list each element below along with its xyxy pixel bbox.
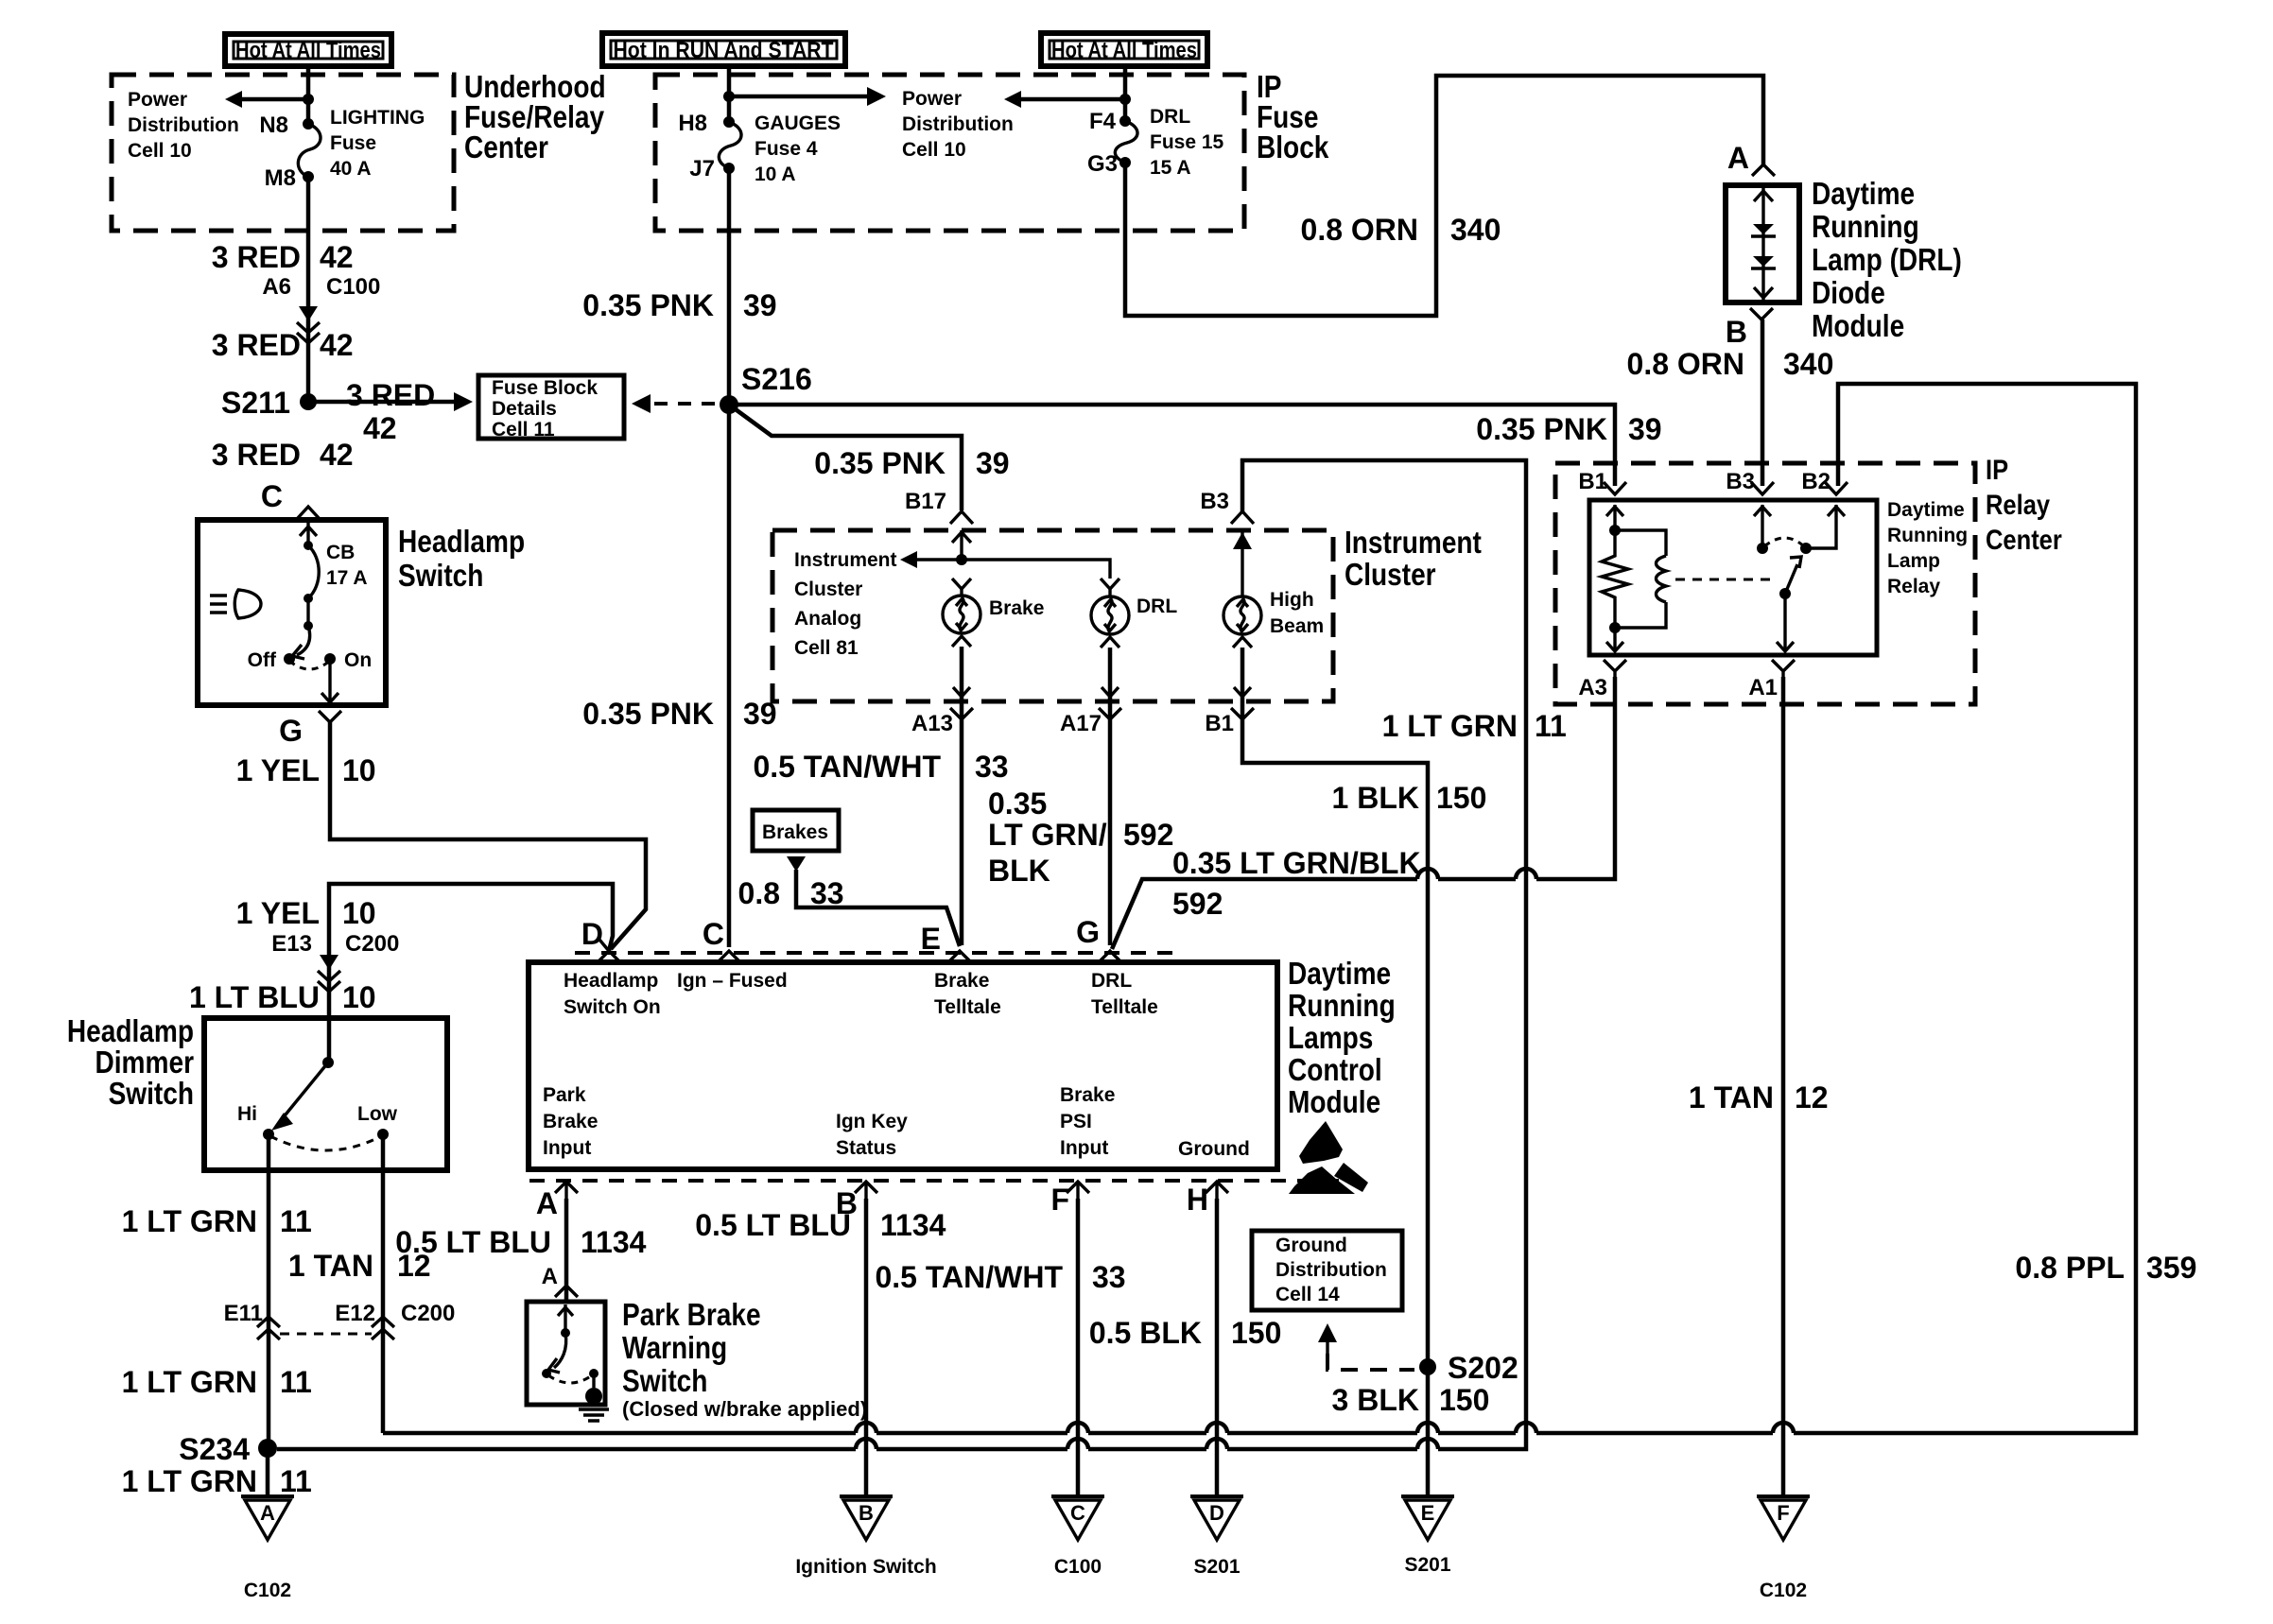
wire label 1 LT GRN 11 (below E11) (122, 1365, 312, 1399)
label Underhood Fuse/Relay Center (464, 69, 606, 164)
svg-text:0.5 LT BLU: 0.5 LT BLU (695, 1208, 851, 1242)
svg-text:Headlamp: Headlamp (67, 1013, 194, 1048)
label Headlamp Switch (398, 524, 525, 593)
fuse LIGHTING Fuse 40 A (N8/M8) (298, 118, 321, 182)
contact Off (248, 649, 295, 671)
relay switch dashed arc (1764, 538, 1804, 546)
svg-text:N8: N8 (259, 112, 288, 138)
svg-text:0.5 BLK: 0.5 BLK (1089, 1316, 1202, 1350)
connector chevron A park brake (555, 1286, 578, 1297)
svg-text:Switch: Switch (109, 1076, 194, 1111)
svg-text:11: 11 (280, 1365, 312, 1399)
svg-text:33: 33 (1092, 1260, 1126, 1294)
label IP Fuse Block (1257, 69, 1329, 164)
svg-text:Brake: Brake (1060, 1084, 1115, 1106)
svg-text:Beam: Beam (1270, 615, 1324, 637)
svg-text:0.8: 0.8 (738, 876, 780, 910)
label IP Relay Center (1986, 455, 2062, 556)
connector chevron G (319, 711, 341, 722)
svg-text:C102: C102 (244, 1580, 291, 1601)
wire label 1 BLK 150 (1332, 781, 1487, 815)
svg-text:150: 150 (1231, 1316, 1281, 1350)
connector triangle B / Ignition Switch (795, 1496, 936, 1578)
label GAUGES Fuse 4 10 A (755, 112, 841, 185)
svg-text:39: 39 (743, 288, 777, 322)
wire S211 to Fuse Block Details (308, 392, 473, 411)
label Daytime Running Lamp Relay (1887, 499, 1968, 597)
relay coil input wire B1 (1606, 505, 1623, 536)
svg-text:Input: Input (543, 1137, 591, 1159)
wire label 0.8 ORN 340 (top) (1301, 213, 1501, 247)
svg-text:GAUGES: GAUGES (755, 112, 841, 134)
svg-text:B17: B17 (905, 489, 946, 514)
connector chevron B1 relay (1604, 482, 1626, 494)
connector chevron F module (1067, 1182, 1089, 1199)
wire label 0.35 PNK 39 (relay B1) (1476, 412, 1661, 446)
svg-text:Brakes: Brakes (762, 821, 828, 843)
svg-text:B: B (859, 1501, 874, 1525)
svg-text:42: 42 (320, 438, 354, 472)
svg-text:Ign Key: Ign Key (836, 1111, 908, 1132)
svg-text:Distribution: Distribution (902, 113, 1014, 135)
pin label A17 (1060, 711, 1102, 736)
svg-text:B1: B1 (1578, 469, 1607, 494)
svg-text:1 YEL: 1 YEL (236, 896, 320, 930)
DRL control module box (529, 962, 1277, 1169)
svg-text:Fuse 4: Fuse 4 (755, 138, 818, 160)
connector chevron B3 relay (1751, 482, 1774, 494)
wire label 1 LT GRN 11 (above E11) (122, 1204, 312, 1238)
svg-text:Brake: Brake (934, 970, 989, 992)
svg-text:H8: H8 (678, 111, 707, 136)
svg-text:340: 340 (1783, 347, 1833, 381)
connector triangle D / S201 (1190, 1496, 1243, 1578)
ground distribution cell 14 box (1252, 1231, 1402, 1310)
relay contact B2 (1800, 505, 1845, 554)
svg-text:10 A: 10 A (755, 164, 796, 185)
module pin name Park Brake Input (543, 1084, 598, 1159)
svg-text:Diode: Diode (1812, 275, 1885, 310)
pin label B1 (relay) (1578, 469, 1607, 494)
wire label 3 RED 42 (above C100) (212, 240, 354, 274)
svg-text:Hot In RUN And START: Hot In RUN And START (614, 38, 834, 63)
connector triangle A / C102 (241, 1496, 294, 1601)
connector E12/C200 labels (335, 1301, 455, 1326)
lamp High Beam telltale (1223, 530, 1324, 697)
wire label 0.5 TAN/WHT 33 (A13) (753, 750, 1008, 784)
svg-text:3 RED: 3 RED (212, 438, 301, 472)
svg-text:J7: J7 (689, 156, 715, 181)
pin label F4 (1089, 109, 1117, 134)
lamp DRL telltale (1091, 579, 1177, 697)
relay switch common B3 (1754, 505, 1771, 554)
connector chevron B17 (950, 511, 973, 524)
pin label G module (1076, 915, 1100, 949)
svg-text:150: 150 (1439, 1383, 1489, 1417)
svg-text:Low: Low (357, 1103, 398, 1125)
svg-text:Hot At All Times: Hot At All Times (235, 38, 381, 63)
connector C200 chevrons at E12 (372, 1317, 394, 1339)
svg-text:Cell 81: Cell 81 (794, 637, 859, 659)
svg-text:D: D (1209, 1501, 1224, 1525)
svg-text:39: 39 (1628, 412, 1662, 446)
headlamp icon (210, 590, 261, 618)
svg-text:C200: C200 (401, 1301, 455, 1326)
svg-text:Running: Running (1288, 988, 1396, 1023)
diode D2 (1751, 256, 1776, 268)
pin label C (703, 917, 724, 951)
svg-text:0.5 TAN/WHT: 0.5 TAN/WHT (753, 750, 941, 784)
wire module F to C100 (0.5 TAN/WHT 33) (1076, 1199, 1081, 1496)
svg-text:C: C (261, 479, 283, 513)
dimmer pivot and blade (271, 1057, 334, 1131)
svg-text:A13: A13 (911, 711, 953, 736)
svg-text:Control: Control (1288, 1052, 1382, 1087)
svg-text:12: 12 (1795, 1080, 1829, 1114)
wire label 1 TAN 12 (A1) (1689, 1080, 1829, 1114)
svg-text:Cluster: Cluster (794, 579, 862, 600)
svg-text:A: A (542, 1264, 558, 1289)
svg-text:Distribution: Distribution (1275, 1259, 1387, 1281)
svg-text:Relay: Relay (1986, 490, 2050, 521)
svg-text:42: 42 (320, 240, 354, 274)
wire module B to ignition switch (0.5 LT BLU 1134) (864, 1199, 869, 1496)
svg-text:Instrument: Instrument (1345, 525, 1482, 560)
svg-text:Switch: Switch (398, 558, 483, 593)
relay resistor (1602, 530, 1628, 628)
pin label B1 cluster (1205, 711, 1234, 736)
splice S202 (1419, 1351, 1518, 1385)
connector chevron B1 cluster (1231, 708, 1254, 719)
svg-text:11: 11 (1535, 709, 1567, 743)
park brake dashed arc (548, 1375, 592, 1383)
label Headlamp Dimmer Switch (67, 1013, 194, 1111)
module pin name Headlamp Switch On (564, 970, 661, 1018)
wire label 0.5 LT BLU 1134 (A) (395, 1225, 646, 1259)
wire to DRL lamp (962, 560, 1110, 579)
svg-text:High: High (1270, 589, 1314, 611)
svg-text:CB: CB (326, 542, 355, 563)
svg-text:DRL: DRL (1091, 970, 1132, 992)
wire label 0.5 TAN/WHT 33 (F) (875, 1260, 1125, 1294)
svg-text:(Closed w/brake applied): (Closed w/brake applied) (622, 1397, 867, 1421)
svg-text:LIGHTING: LIGHTING (330, 107, 425, 129)
svg-text:D: D (581, 917, 603, 951)
wire from Hot In RUN And START to fuse H8 (727, 66, 732, 122)
connector chevron B module (855, 1182, 877, 1199)
label DRL Fuse 15 15 A (1150, 106, 1224, 179)
wire label 1 LT GRN 11 (below S234) (122, 1464, 312, 1498)
park brake switch input arrow (558, 1304, 573, 1338)
svg-text:H: H (1187, 1183, 1208, 1217)
wire label 0.35 PNK 39 (above S216) (582, 288, 776, 322)
connector chevron A17 (1099, 708, 1121, 719)
pin label A module (536, 1186, 558, 1220)
svg-text:B1: B1 (1205, 711, 1234, 736)
wire S216 to relay B1 (0.35 PNK 39) (729, 405, 1615, 486)
wire module H to S201 (0.5 BLK 150) (1215, 1199, 1220, 1496)
label box Hot In RUN And START (602, 33, 845, 66)
svg-text:Cell 10: Cell 10 (902, 139, 966, 161)
wire label 1 YEL 10 (236, 753, 376, 787)
svg-text:1 YEL: 1 YEL (236, 753, 320, 787)
pin label A1 (relay) (1748, 675, 1778, 700)
svg-text:Ignition Switch: Ignition Switch (795, 1556, 936, 1578)
module bottom dashed connector line (529, 1179, 1347, 1183)
svg-text:Input: Input (1060, 1137, 1108, 1159)
wire brake lamp to A13 (960, 647, 964, 945)
contact Low (357, 1103, 398, 1140)
wire label 0.5 LT BLU 1134 (B) (695, 1208, 946, 1242)
wire dimmer common to module D (1 YEL 10) (329, 884, 613, 1063)
pin label J7 (689, 156, 715, 181)
svg-text:A: A (1727, 141, 1749, 175)
connector chevron A13 (950, 708, 973, 719)
svg-text:0.5 TAN/WHT: 0.5 TAN/WHT (875, 1260, 1063, 1294)
svg-text:1134: 1134 (880, 1208, 946, 1242)
svg-text:LT GRN/: LT GRN/ (988, 818, 1107, 852)
label Instrument Cluster (1345, 525, 1482, 592)
dashed arc Off-On (289, 661, 330, 669)
wire M8 down to S211 (306, 177, 311, 402)
svg-text:10: 10 (342, 753, 376, 787)
svg-text:0.5 LT BLU: 0.5 LT BLU (395, 1225, 551, 1259)
wire label 0.8 ORN 340 (diode B) (1627, 347, 1834, 381)
wire B17 into cluster (952, 530, 971, 565)
svg-text:Ign – Fused: Ign – Fused (677, 970, 788, 992)
wire label 0.35 LT GRN/ BLK 592 (A17) (988, 786, 1173, 888)
svg-text:Brake: Brake (543, 1111, 598, 1132)
pin label A (diode module) (1727, 141, 1749, 175)
svg-text:Headlamp: Headlamp (564, 970, 658, 992)
wire G3 to diode module A (0.8 ORN 340) (1125, 76, 1763, 316)
wire Hi down to E11 (267, 1134, 271, 1448)
circuit breaker CB 17 A (304, 542, 368, 603)
svg-text:Daytime: Daytime (1288, 956, 1391, 991)
svg-text:IP: IP (1986, 455, 2008, 486)
svg-text:E12: E12 (335, 1301, 375, 1326)
wire relay A3 to module G (0.35 LT GRN/BLK 592) (1112, 677, 1615, 949)
wire arrow to power distribution (right) (729, 87, 886, 106)
wire label 1 TAN 12 (E12) (288, 1249, 431, 1283)
label Park Brake Warning Switch (622, 1297, 867, 1421)
svg-text:Relay: Relay (1887, 576, 1940, 597)
svg-text:Brake: Brake (989, 597, 1044, 619)
svg-text:Warning: Warning (622, 1330, 727, 1365)
connector E13/C200 labels (271, 931, 399, 957)
label Power Distribution Cell 10 (IP) (902, 88, 1014, 161)
svg-text:Switch: Switch (622, 1363, 707, 1398)
pin label C (headlamp switch) (261, 479, 283, 513)
splice S211 (221, 386, 317, 420)
pin label B2 (relay) (1801, 469, 1831, 494)
svg-text:150: 150 (1436, 781, 1486, 815)
dashed wire S216 to fuse block details (632, 394, 719, 413)
connector chevron A1 relay (1772, 660, 1795, 677)
wire label 0.5 BLK 150 (H) (1089, 1316, 1282, 1350)
svg-text:A6: A6 (262, 274, 291, 300)
IP fuse block dashed box (655, 75, 1244, 231)
svg-text:G: G (279, 714, 303, 748)
svg-text:15 A: 15 A (1150, 157, 1191, 179)
wire arrow to power distribution (left) (225, 91, 308, 108)
connector C200 dashed line (280, 1333, 372, 1336)
switch output wire arrow (321, 659, 338, 702)
svg-text:Dimmer: Dimmer (95, 1045, 195, 1080)
svg-text:B3: B3 (1726, 469, 1755, 494)
svg-text:C200: C200 (345, 931, 399, 957)
svg-text:M8: M8 (265, 165, 296, 191)
svg-text:1134: 1134 (581, 1225, 647, 1259)
label Daytime Running Lamps Control Module (1288, 956, 1396, 1119)
wire label 3 RED 42 (above C) (212, 438, 354, 472)
pin label G (279, 714, 303, 748)
svg-text:3 RED: 3 RED (346, 378, 435, 412)
label LIGHTING Fuse 40 A (330, 107, 425, 180)
node junction on DRL feed (1119, 94, 1131, 105)
svg-text:F: F (1777, 1501, 1789, 1525)
svg-text:Status: Status (836, 1137, 896, 1159)
svg-text:Fuse Block: Fuse Block (492, 377, 598, 399)
pin label B (diode module) (1726, 315, 1747, 349)
svg-text:Telltale: Telltale (934, 996, 1001, 1018)
module pin name Ground (1178, 1138, 1250, 1160)
pin label E (921, 922, 941, 956)
svg-text:0.35: 0.35 (988, 786, 1047, 821)
svg-text:Fuse: Fuse (330, 132, 376, 154)
svg-text:A1: A1 (1748, 675, 1778, 700)
svg-text:Running: Running (1887, 525, 1968, 546)
svg-text:3 RED: 3 RED (212, 240, 301, 274)
module pin name Brake PSI Input (1060, 1084, 1115, 1159)
label Power Distribution Cell 10 (underhood) (128, 89, 239, 162)
svg-text:A: A (260, 1501, 275, 1525)
relay coil output to A3 (1606, 628, 1623, 651)
wire arrow to instrument cluster analog (900, 551, 962, 568)
wire label 3 RED 42 (below C100) (212, 328, 354, 362)
pin label B17 (905, 489, 946, 514)
svg-text:Instrument: Instrument (794, 549, 897, 571)
headlamp switch feed wire with arrow (300, 522, 317, 550)
svg-text:C100: C100 (326, 274, 380, 300)
svg-text:Hot At All Times: Hot At All Times (1051, 38, 1197, 63)
brakes box (753, 810, 839, 851)
svg-text:1 LT GRN: 1 LT GRN (1382, 709, 1518, 743)
svg-text:1 LT GRN: 1 LT GRN (122, 1204, 257, 1238)
connector A6/C100 labels (262, 274, 380, 300)
wire label 0.35 PNK 39 (B17) (814, 446, 1009, 480)
svg-text:Power: Power (128, 89, 187, 111)
connector triangle F / C102 (1757, 1496, 1810, 1601)
IP relay center dashed box (1555, 463, 1975, 704)
headlamp dimmer switch box (204, 1018, 447, 1170)
fuse DRL Fuse 15 15 A (F4/G3) (1115, 115, 1137, 168)
svg-text:S234: S234 (179, 1432, 250, 1466)
svg-text:A3: A3 (1578, 675, 1607, 700)
svg-text:Center: Center (1986, 525, 2062, 556)
svg-text:Power: Power (902, 88, 962, 110)
wire high beam lamp to B1 (1242, 648, 1428, 1496)
svg-text:42: 42 (320, 328, 354, 362)
diode D1 (1751, 224, 1776, 236)
svg-text:A: A (536, 1186, 558, 1220)
underhood fuse/relay center dashed box (112, 75, 454, 231)
connector chevron A module (555, 1182, 578, 1199)
svg-text:0.8 PPL: 0.8 PPL (2015, 1251, 2125, 1285)
park brake switch blade (542, 1333, 599, 1378)
svg-text:Module: Module (1288, 1084, 1380, 1119)
label box Hot At All Times (right) (1041, 33, 1207, 66)
svg-text:S201: S201 (1404, 1554, 1450, 1576)
connector chevron B2 relay (1825, 482, 1848, 494)
relay linkage dashed (1675, 579, 1776, 581)
splice S234 (179, 1432, 277, 1466)
wire label 1 LT GRN 11 (high beam) (1382, 709, 1567, 743)
wire label 0.35 LT GRN/BLK 592 (1172, 846, 1421, 921)
pin label M8 (265, 165, 296, 191)
pin label B3 (relay) (1726, 469, 1755, 494)
wire label 1 YEL 10 (dimmer feed) (236, 896, 376, 930)
svg-text:S201: S201 (1193, 1556, 1240, 1578)
svg-text:0.8 ORN: 0.8 ORN (1301, 213, 1418, 247)
connector C200 chevrons at E11 (257, 1317, 280, 1339)
wire module A to park brake switch (0.5 LT BLU 1134) (564, 1199, 569, 1302)
svg-text:BLK: BLK (988, 854, 1050, 888)
svg-text:39: 39 (976, 446, 1010, 480)
svg-text:S216: S216 (741, 362, 812, 396)
svg-text:E: E (1421, 1501, 1435, 1525)
svg-text:11: 11 (280, 1204, 312, 1238)
splice S216 (720, 362, 812, 414)
svg-text:E11: E11 (224, 1301, 263, 1326)
relay coil branch (1609, 530, 1666, 633)
wire G down (1 YEL 10) (330, 722, 646, 949)
svg-text:340: 340 (1450, 213, 1501, 247)
svg-text:Cluster: Cluster (1345, 557, 1436, 592)
svg-text:Lamps: Lamps (1288, 1020, 1373, 1055)
instrument cluster dashed box (772, 530, 1333, 701)
connector triangle C / C100 (1051, 1496, 1104, 1578)
connector chevron C module (718, 951, 740, 962)
wire from Hot At All Times to fuse N8 (306, 66, 311, 124)
svg-text:F: F (1050, 1183, 1069, 1217)
svg-text:10: 10 (342, 980, 376, 1014)
DRL diode module box (1726, 185, 1799, 302)
svg-text:Hi: Hi (237, 1103, 257, 1125)
park brake ground (579, 1373, 609, 1421)
svg-text:Park: Park (543, 1084, 586, 1106)
pin label N8 (259, 112, 288, 138)
wire label 42 (arrow) (363, 411, 397, 445)
svg-text:0.8 ORN: 0.8 ORN (1627, 347, 1744, 381)
ground distribution arrow (1318, 1323, 1337, 1354)
headlamp switch box (198, 520, 386, 705)
svg-text:Cell 14: Cell 14 (1275, 1284, 1340, 1305)
label Instrument Cluster Analog Cell 81 (794, 549, 897, 659)
svg-text:Park Brake: Park Brake (622, 1297, 761, 1332)
wire S234 to connector A (266, 1448, 270, 1496)
svg-text:Center: Center (464, 130, 548, 164)
pin label F module (1050, 1183, 1069, 1217)
svg-text:Daytime: Daytime (1812, 176, 1915, 211)
headlamp switch blade (292, 598, 313, 659)
contact On (324, 649, 372, 671)
svg-text:B3: B3 (1200, 489, 1229, 514)
svg-text:592: 592 (1172, 887, 1223, 921)
svg-text:Off: Off (248, 649, 277, 671)
svg-text:3 BLK: 3 BLK (1332, 1383, 1419, 1417)
connector chevron A3 relay (1604, 660, 1626, 677)
